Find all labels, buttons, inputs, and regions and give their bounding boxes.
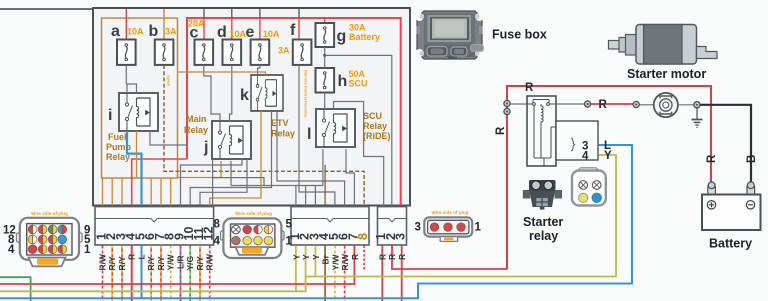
- fuel pump section box (tan): [102, 18, 178, 178]
- svg-text:j: j: [203, 139, 208, 156]
- svg-text:k: k: [240, 87, 249, 104]
- wire: blue relay i to connector1 pin5: [127, 131, 142, 206]
- svg-text:Wire side of plug: Wire side of plug: [432, 210, 469, 215]
- svg-text:Starter: Starter: [523, 215, 563, 229]
- connector2 pin6 wire R/W: [344, 246, 346, 301]
- connector2 pin4 wire Br: [324, 246, 326, 301]
- starter relay internals: [527, 100, 556, 167]
- svg-text:R/W: R/W: [340, 253, 350, 271]
- wire: fuse e to relay k switch: [258, 65, 260, 75]
- svg-text:h: h: [338, 73, 348, 90]
- battery plus sign: [707, 201, 715, 209]
- connector2 pin2 wire Y: [305, 246, 307, 277]
- wire: fuse g to junction and fuse h: [324, 47, 326, 68]
- svg-text:10A: 10A: [263, 29, 280, 39]
- wire: red 20A leg to connector1 pin4: [132, 159, 187, 206]
- fuse g 30A Battery: [316, 23, 335, 47]
- svg-text:c: c: [190, 25, 199, 42]
- connector 3 icon (3 pin): [424, 217, 472, 241]
- svg-text:L/R: L/R: [176, 255, 186, 269]
- svg-text:(RiDE): (RiDE): [363, 131, 391, 141]
- svg-text:R/Y: R/Y: [195, 256, 205, 271]
- wire: relay k to connector1 pin12 (tan): [210, 111, 261, 206]
- red feed wire R battery to starter relay and top rail: [507, 86, 711, 269]
- bullet connector: [584, 101, 590, 107]
- svg-text:i: i: [108, 107, 112, 124]
- strip1 pin numbers 1-12: [95, 227, 216, 241]
- wire: tan feed to relay k coil: [178, 72, 266, 75]
- strip2 wire labels: [291, 253, 360, 271]
- wire: fuse b spare (brown dashed): [164, 65, 364, 206]
- relay j (main relay): [212, 121, 251, 159]
- wire: relay l right branch to strip3 pin1: [334, 102, 384, 206]
- khaki bus wire Y to starter relay: [0, 155, 616, 291]
- svg-text:B: B: [746, 155, 758, 163]
- connector1 pin circles row 12-9: [28, 225, 67, 234]
- starter motor icon: [609, 25, 718, 65]
- fuse h 50A SCU: [316, 68, 335, 93]
- connector1 pin6 wire R/Y: [150, 246, 152, 301]
- svg-text:Y/G: Y/G: [185, 255, 195, 270]
- svg-text:50A: 50A: [349, 69, 366, 79]
- connector2 pin7 wire R joins left red bus: [0, 246, 354, 285]
- svg-text:Fuse box: Fuse box: [492, 28, 547, 42]
- wire: junction to strip3 pin2: [325, 55, 392, 205]
- battery plus terminal: [708, 182, 716, 195]
- svg-text:Relay: Relay: [363, 121, 387, 131]
- svg-text:g: g: [337, 28, 347, 45]
- connector2 pin5 wire Y/W: [334, 246, 336, 301]
- starter relay photo icon: [523, 180, 562, 210]
- connector2 pin circles row 8-5: [232, 225, 273, 234]
- wire: relay i coil out (tan): [136, 131, 138, 178]
- svg-text:R/Y: R/Y: [146, 256, 156, 271]
- tan bus extension to relay j: [178, 161, 222, 178]
- wire: fuse h to relay l: [324, 93, 326, 110]
- connector2 pin3 wire Y: [314, 246, 316, 277]
- bullet connectors on red feed: [504, 100, 510, 106]
- svg-text:Fuel: Fuel: [108, 132, 127, 142]
- connector1 pin1 wire R/W: [102, 246, 104, 301]
- wire: brown Br to connector2 pin4: [324, 165, 326, 206]
- battery minus sign: [746, 201, 754, 209]
- svg-text:SCU: SCU: [349, 79, 368, 89]
- wire bullet to starter relay: [510, 103, 527, 105]
- svg-text:R: R: [377, 254, 387, 260]
- svg-text:R: R: [127, 254, 137, 260]
- connector2 pin1 wire Y: [295, 246, 297, 292]
- connector1 pin circles row 4-1: [28, 245, 67, 254]
- strip2 pin numbers 1-8: [288, 233, 370, 240]
- strip3 pin numbers 1-3: [374, 233, 407, 240]
- wire: fuse c to relay j: [204, 65, 220, 121]
- wire: feed to fuse a (red): [125, 9, 127, 40]
- svg-text:f: f: [290, 22, 296, 39]
- svg-text:3: 3: [394, 233, 408, 240]
- wire: fuse f down to connector 2 pin 5: [299, 65, 335, 206]
- svg-text:relay: relay: [529, 229, 558, 243]
- connector3 pin2 wire R to starter relay feed: [392, 246, 507, 270]
- starter relay box: [527, 96, 556, 166]
- wire: fuse d to relay j coil: [230, 65, 232, 121]
- svg-text:Y: Y: [291, 254, 301, 260]
- svg-text:1: 1: [286, 236, 293, 248]
- strip3 wire labels: [377, 254, 406, 260]
- scan top edge line: [0, 8, 93, 10]
- connector1 pin10 wire Y/G: [189, 246, 191, 301]
- svg-text:10A: 10A: [127, 27, 144, 37]
- grey comb bus relay j and relay l to connector2 pins 1-3: [231, 149, 323, 206]
- svg-text:l: l: [307, 126, 311, 143]
- svg-text:5: 5: [286, 219, 293, 231]
- strip1 wire labels: [98, 253, 215, 271]
- svg-text:4: 4: [214, 236, 221, 248]
- svg-text:R: R: [525, 82, 534, 94]
- wire: rail drops to fuses c,d,e,f,g (red): [203, 18, 205, 40]
- connector1 pin9 wire L/R: [180, 246, 182, 301]
- blue bus wire L to starter relay: [0, 145, 632, 298]
- fuse box photo icon: [416, 11, 484, 59]
- connector1 pin2 wire R/Y: [111, 246, 113, 301]
- svg-text:Br: Br: [321, 254, 331, 264]
- relay i (fuel pump relay): [119, 93, 158, 131]
- svg-text:3A: 3A: [278, 46, 290, 56]
- svg-text:4: 4: [582, 151, 589, 163]
- svg-text:30A: 30A: [349, 23, 366, 33]
- svg-text:Y: Y: [301, 254, 311, 260]
- wire: relay j to connector1 pin9 (grey): [181, 159, 243, 206]
- svg-text:Y/W: Y/W: [166, 253, 176, 270]
- svg-text:8: 8: [356, 233, 370, 240]
- svg-text:e: e: [246, 24, 255, 41]
- battery minus terminal: [747, 182, 755, 195]
- svg-text:Wire side of plug: Wire side of plug: [235, 211, 272, 216]
- svg-text:Y: Y: [311, 254, 321, 260]
- relay l (SCU relay RiDE): [316, 109, 355, 147]
- svg-text:R: R: [706, 154, 718, 163]
- connector1 pin4 wire R: [131, 246, 133, 301]
- starter relay 3-4 box: [556, 121, 598, 160]
- fuse a 10A: [117, 40, 136, 65]
- connector1 pin3 wire R/Y: [121, 246, 123, 301]
- svg-text:Relay: Relay: [184, 125, 208, 135]
- svg-text:R: R: [350, 254, 360, 260]
- connector 2 icon (8 pin): [221, 218, 285, 258]
- svg-text:a: a: [111, 23, 120, 40]
- svg-text:b: b: [149, 23, 159, 40]
- wire: relay j to connector1 pin11 (grey): [200, 159, 247, 206]
- fuse d 10A: [223, 40, 242, 65]
- connector strip 1 box: [95, 207, 214, 245]
- wire: relay l to connector2 pin7: [346, 149, 354, 206]
- green bus wire G: [0, 277, 31, 301]
- svg-text:1: 1: [84, 244, 91, 256]
- svg-text:Y: Y: [604, 150, 612, 162]
- wire bullet to motor: [640, 104, 654, 106]
- bullet connector: [694, 102, 700, 108]
- svg-text:Relay: Relay: [271, 129, 295, 139]
- svg-text:ETV: ETV: [271, 118, 289, 128]
- ground symbol: [692, 108, 703, 127]
- wire: relay i output right (grey): [150, 131, 188, 145]
- wire: relay k to connector1 pin10 (grey): [190, 111, 271, 206]
- svg-text:3A: 3A: [165, 27, 177, 37]
- relay k (ETV relay): [251, 75, 283, 111]
- connector3 pin1 wire R: [381, 246, 383, 301]
- grey filler wire below relay j: [213, 159, 264, 206]
- svg-text:R/W: R/W: [205, 253, 215, 271]
- svg-text:R: R: [387, 254, 397, 260]
- tan drops to connector1 pins 1,2,3,6,7,8: [103, 178, 171, 206]
- svg-text:R/Y: R/Y: [117, 256, 127, 271]
- connector2 pin8 stub: [363, 246, 365, 271]
- svg-text:R/W: R/W: [98, 253, 108, 271]
- connector3 pin3 wire R: [401, 246, 403, 301]
- wire: top ticks to rail at c,d,e,f: [203, 9, 205, 18]
- svg-text:SCU: SCU: [363, 111, 382, 121]
- fuse c 20A: [195, 40, 214, 65]
- brace in 3-4 box: [571, 138, 575, 151]
- connector2 pin circles row 4-1: [232, 236, 273, 245]
- svg-text:R: R: [495, 126, 507, 135]
- connector 1 icon (12 pin): [17, 218, 83, 266]
- svg-text:Battery: Battery: [349, 32, 380, 42]
- svg-text:d: d: [217, 24, 227, 41]
- connector1 pin5 wire L: [141, 246, 143, 299]
- wire: fuse a to relay i: [126, 65, 136, 93]
- svg-text:R/Y: R/Y: [156, 256, 166, 271]
- wire B black to battery minus: [700, 105, 751, 183]
- connector1 pin8 wire Y/W: [170, 246, 172, 301]
- starter relay 4-pin connector icon: [572, 168, 606, 206]
- connector strip 3 box: [378, 207, 407, 245]
- svg-text:R: R: [599, 99, 608, 111]
- svg-text:1: 1: [475, 222, 482, 234]
- connector1 pin12 wire R/W: [209, 246, 211, 301]
- svg-text:Spare: Spare: [167, 75, 172, 87]
- svg-text:L: L: [137, 254, 147, 259]
- wire motor to bullet: [678, 104, 694, 106]
- svg-text:Y/W: Y/W: [330, 253, 340, 270]
- svg-text:Starter motor: Starter motor: [627, 67, 706, 81]
- svg-text:R/Y: R/Y: [107, 256, 117, 271]
- svg-text:Wire side of plug: Wire side of plug: [31, 211, 68, 216]
- svg-text:10A: 10A: [230, 29, 247, 39]
- starter motor symbol: [654, 93, 678, 117]
- connector1 pin7 wire R/Y: [160, 246, 162, 301]
- junction node below fuse g: [323, 54, 326, 57]
- fuse f 3A: [293, 40, 312, 65]
- connector1 pin11 wire R/Y: [199, 246, 201, 301]
- ETV 20A section outline (red): top rail: [187, 18, 401, 205]
- fuse b 3A: [155, 40, 174, 65]
- fuse box outer enclosure: [93, 8, 410, 206]
- svg-text:8: 8: [214, 219, 221, 231]
- svg-text:Battery: Battery: [709, 237, 752, 251]
- battery body: [702, 195, 761, 231]
- fuse e 10A: [251, 40, 270, 65]
- connector strip 2 box: [291, 207, 369, 245]
- wire: relay k to connector2 pin6: [277, 111, 345, 206]
- svg-text:Remote Control Receiver: Remote Control Receiver: [304, 70, 309, 118]
- svg-text:4: 4: [8, 244, 15, 256]
- svg-text:R: R: [397, 254, 407, 260]
- connector1 pin circles row 8-5: [28, 235, 67, 244]
- svg-text:3: 3: [415, 222, 421, 234]
- bullet connector: [633, 101, 639, 107]
- wire relay to bullet: [556, 103, 585, 105]
- wire: feed to fuse b (tan): [163, 9, 165, 40]
- wire R to motor bullet: [591, 103, 633, 105]
- svg-text:Main: Main: [186, 114, 207, 124]
